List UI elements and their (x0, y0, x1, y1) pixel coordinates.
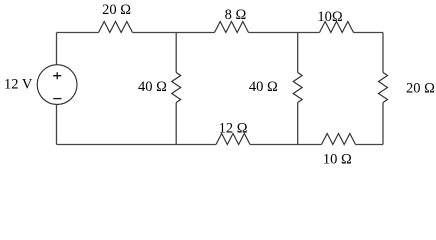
wire middle branch 2 upper (node C down to R 40ohm) (297, 33, 299, 73)
wire middle branch 2 lower (R 40ohm down to bottom wire) (297, 103, 299, 145)
wire top segment D (R 10ohm to right corner) (354, 32, 384, 34)
voltage source minus sign (53, 98, 61, 100)
resistor R7 12ohm (bottom middle) (216, 134, 250, 145)
svg-text:8 Ω: 8 Ω (225, 7, 247, 23)
wire top segment A (left corner to R 20ohm) (57, 32, 99, 34)
wire bottom segment A (left corner to R 12ohm) (57, 144, 217, 146)
wire left-bottom vertical (source to bottom wire) (56, 105, 58, 145)
svg-text:40 Ω: 40 Ω (138, 79, 167, 95)
resistor R1 20ohm (top left) (99, 22, 133, 33)
svg-text:20 Ω: 20 Ω (406, 81, 435, 97)
svg-text:12 Ω: 12 Ω (219, 120, 248, 136)
wire middle branch 1 upper (node B down to R 40ohm) (175, 33, 177, 73)
wire right branch lower (R 20ohm down to bottom right corner) (382, 103, 384, 145)
svg-text:10 Ω: 10 Ω (323, 152, 352, 168)
wire top segment B (R 20ohm to node B and to R 8ohm) (133, 32, 215, 34)
svg-text:40 Ω: 40 Ω (249, 79, 278, 95)
resistor R6 20ohm (vertical, far right) (379, 73, 388, 103)
wire left-top vertical (source to top wire) (56, 33, 58, 65)
resistor R2 8ohm (top middle) (215, 22, 249, 33)
svg-text:12 V: 12 V (4, 77, 33, 93)
svg-text:10Ω: 10Ω (317, 9, 343, 25)
resistor R8 10ohm (bottom right) (322, 134, 356, 145)
wire bottom segment C (R 10ohm to right corner) (356, 144, 384, 146)
resistor R4 40ohm (vertical, left middle) (172, 73, 181, 103)
resistor R5 40ohm (vertical, right middle) (293, 73, 302, 103)
resistor R3 10ohm (top right) (320, 22, 354, 33)
voltage source plus sign (53, 72, 61, 79)
svg-text:20 Ω: 20 Ω (102, 2, 131, 18)
wire top segment C (R 8ohm to node C and to R 10ohm) (249, 32, 320, 34)
wire middle branch 1 lower (R 40ohm down to bottom wire) (175, 103, 177, 145)
wire bottom segment B (R 12ohm to R 10ohm) (250, 144, 322, 146)
wire right branch upper (top right corner down to R 20ohm) (382, 33, 384, 73)
voltage source V1 circle (37, 65, 77, 105)
